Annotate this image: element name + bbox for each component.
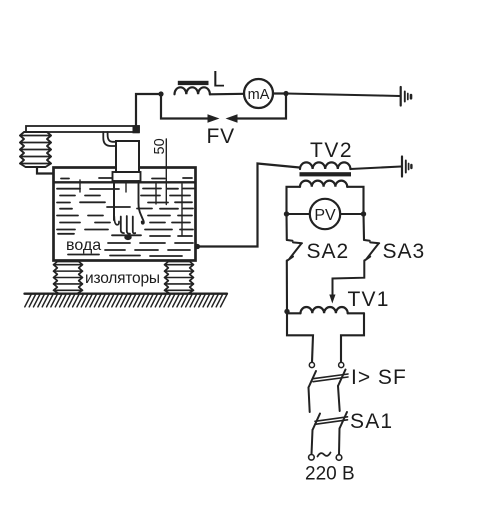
earth ground line (25, 293, 228, 295)
wire SA3 to TV1 wiper (333, 261, 365, 296)
wire insulator to tank (37, 167, 54, 174)
wire PV right node down to SA3 (362, 214, 365, 240)
switch SA1 linkage bar (315, 417, 348, 422)
ground (top right) (401, 87, 411, 106)
supply terminal left (309, 455, 315, 461)
inductor L winding (175, 87, 210, 94)
svg-text:FV: FV (207, 125, 235, 148)
water surface (55, 181, 195, 183)
water dashes (57, 178, 194, 256)
wire TV1 left leg down (287, 312, 313, 363)
support insulator left (54, 262, 83, 294)
inductor L core bar (178, 81, 209, 85)
water vertical marks (80, 180, 182, 236)
bushing insulator (top left) (20, 132, 51, 167)
transformer TV2 secondary winding (300, 181, 347, 187)
wire TV2 secondary right down (347, 187, 363, 214)
wire TV2 primary to ground (350, 167, 401, 170)
svg-text:TV2: TV2 (310, 139, 353, 162)
svg-text:mA: mA (248, 87, 270, 103)
transformer TV2 primary winding (300, 162, 350, 169)
electrode box (116, 141, 139, 172)
svg-text:PV: PV (314, 207, 336, 224)
node junction right of mA (283, 91, 288, 96)
node junction left of L (158, 91, 163, 96)
node on tank right wall (195, 244, 200, 249)
svg-text:SA1: SA1 (350, 410, 393, 433)
node TV1 left (284, 309, 289, 314)
wire SA2 down to TV1 node (286, 261, 288, 312)
svg-text:I> SF: I> SF (351, 366, 407, 389)
breaker SF linkage bar (313, 374, 348, 379)
switch SA3 (364, 240, 379, 261)
wires SF to SA1 (309, 388, 310, 413)
thumb tip (141, 221, 144, 224)
busbar on insulator (26, 126, 139, 132)
milliammeter mA (244, 79, 273, 108)
svg-text:изоляторы: изоляторы (85, 270, 160, 287)
svg-text:SA3: SA3 (383, 240, 426, 263)
ground (TV2) (402, 157, 411, 177)
node PV right (361, 211, 366, 216)
spark gap FV branch wires (161, 94, 208, 119)
wire from busbar up to top loop (136, 94, 161, 126)
svg-text:50: 50 (152, 138, 168, 154)
svg-text:SA2: SA2 (307, 240, 350, 263)
svg-text:вода: вода (66, 237, 101, 254)
transformer TV2 core (300, 172, 352, 176)
autotransformer TV1 winding (301, 307, 348, 313)
ac symbol (318, 453, 331, 457)
fingers (114, 217, 119, 225)
dimension line 50 (165, 139, 167, 205)
wire elbow busbar to electrode box (103, 132, 116, 146)
support insulator right (165, 262, 194, 294)
wire TV1 right leg down (341, 313, 364, 362)
wire PV left node down to SA2 (285, 214, 287, 240)
svg-text:L: L (213, 67, 225, 92)
TV1 baseline wires (287, 312, 301, 314)
switch SA1 blades (313, 414, 321, 431)
breaker SF blades (309, 371, 317, 388)
TV1 wiper arrowhead (329, 295, 335, 304)
finger tips dash (112, 234, 141, 236)
svg-text:220 В: 220 В (305, 464, 355, 485)
earth hatching (25, 295, 227, 307)
wire mA to node (273, 92, 286, 94)
hand electrode arm (112, 181, 144, 235)
water tank (54, 168, 196, 261)
wire PV row (287, 213, 364, 215)
svg-text:TV1: TV1 (348, 288, 390, 311)
voltmeter PV (310, 199, 340, 229)
wire tank to TV2 primary (198, 164, 300, 247)
supply terminal right (336, 455, 342, 461)
finger tips blob (124, 234, 131, 240)
wire node to ground (286, 94, 400, 97)
switch SA2 (287, 240, 302, 261)
electrode pedestal (113, 172, 141, 181)
wire TV2 secondary left down (287, 187, 301, 214)
breaker SF contacts (309, 362, 314, 367)
node PV left (284, 211, 289, 216)
wires SA1 to supply terminals (312, 430, 313, 454)
wire L to mA (210, 93, 244, 96)
spark gap FV arrows (208, 114, 220, 122)
